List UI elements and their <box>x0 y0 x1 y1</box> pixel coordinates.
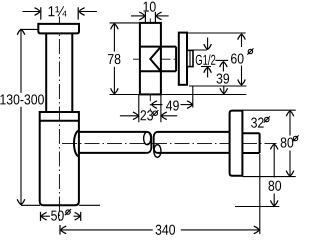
dimension G1/2: down arrow <box>207 38 209 50</box>
extension lines valve body sides for 23 <box>139 95 161 123</box>
dimension 39: down arrow <box>223 86 225 94</box>
valve wall flange 60 <box>179 33 187 85</box>
dimension 23: right arrow <box>161 115 177 117</box>
dimension 23: left arrow <box>120 115 138 117</box>
outlet pipe right segment <box>158 132 230 153</box>
tailpipe tube <box>46 33 72 112</box>
outlet dome inside cup <box>74 131 79 156</box>
dimension 130-300: bottom reference <box>21 204 40 206</box>
text 50 <box>51 210 64 220</box>
bottle cup body <box>40 112 79 205</box>
valve neck <box>140 47 176 72</box>
text G1/2 <box>196 54 216 65</box>
dimension 1 1/4: ticks <box>41 7 78 19</box>
dimension 10: ticks <box>145 12 155 23</box>
valve cone <box>150 47 161 72</box>
dimension 39: up arrow <box>222 62 224 72</box>
dimension 50: left arrow <box>41 215 50 217</box>
centerline: vertical axis of bottle trap <box>58 17 60 222</box>
dia symbol for 23 <box>152 110 158 116</box>
dimension 130-300: upper stem <box>20 29 22 93</box>
extension line nipple end for 49 <box>192 87 194 108</box>
text 49 <box>166 100 179 110</box>
outlet pipe left segment <box>79 132 147 153</box>
text 80 dia <box>281 137 294 147</box>
dimension 130-300: lower stem <box>20 107 22 205</box>
dimension 80 dia: bottom reference <box>243 176 296 178</box>
extension line bottom of valve body <box>110 94 247 96</box>
dimension 10: right arrow <box>156 15 168 17</box>
dimension 50: right arrow <box>74 215 81 217</box>
wall extension line <box>259 154 261 234</box>
pipe break right cap <box>154 132 158 153</box>
dimension 50: ticks <box>41 212 81 221</box>
dimension 1 1/4: left arrow <box>23 11 40 13</box>
nipple thread line <box>189 50 191 66</box>
dimension 340: right arrow <box>181 229 259 231</box>
pipe break lower loop <box>154 145 161 158</box>
dimension 49: right arrow <box>181 104 193 106</box>
text 1 1/4 <box>49 6 67 16</box>
wall stub pipe <box>242 133 259 153</box>
wall rosette flange <box>230 111 243 176</box>
dia symbol for 32 <box>264 116 270 122</box>
extension line top of flange 60 <box>187 32 246 34</box>
G1/2 nipple <box>187 50 193 66</box>
dimension 10: left arrow <box>131 15 145 17</box>
text 10 <box>144 2 156 12</box>
dia symbol for 50 <box>65 209 71 215</box>
extension line top of valve body <box>110 22 140 24</box>
dimension 80 dia: up arrow <box>289 111 291 136</box>
centerline: horizontal axis of outlet pipe <box>62 142 277 144</box>
dimension 49: left arrow <box>152 104 163 106</box>
text 80 height <box>269 181 282 191</box>
pipe break left cap <box>147 132 151 153</box>
dimension 340: left tick <box>59 225 61 235</box>
dimension 80 height: bottom reference <box>235 206 279 208</box>
dimension 80 dia: top reference <box>243 109 296 111</box>
trap inlet flange nut <box>38 24 79 34</box>
dimension 80 dia: down arrow <box>289 151 291 177</box>
dimension 340: left arrow <box>61 229 153 231</box>
dimension 1 1/4: right arrow <box>79 11 97 13</box>
dimension 78: lower stem <box>113 67 115 94</box>
text 78 <box>108 54 120 64</box>
dimension G1/2: top bar <box>189 49 207 51</box>
centerline: vertical axis of angle valve <box>149 19 151 112</box>
text 130-300 <box>0 94 44 104</box>
dimension 78: upper stem <box>113 24 115 52</box>
angle valve body <box>140 23 161 95</box>
dimension 60: up arrow <box>241 34 243 47</box>
dimension 39: top bar <box>215 59 228 61</box>
dimension 80 height: down arrow <box>273 194 275 206</box>
centerline: horizontal axis of angle valve <box>133 58 194 60</box>
dimension 130-300: top reference <box>21 28 38 30</box>
extension line right of bottle bottom <box>79 204 100 206</box>
extension line bottom of flange 60 <box>189 85 246 87</box>
dia symbol for 80 <box>292 135 298 141</box>
text 39 <box>217 73 230 83</box>
text 60 <box>231 53 244 63</box>
text 340 <box>156 225 175 235</box>
text 32 <box>251 118 264 128</box>
text 23 <box>141 110 153 120</box>
dimension 80 height: up arrow <box>273 144 275 177</box>
dimension G1/2: bottom bar <box>201 66 211 68</box>
cup nut line <box>40 120 79 122</box>
dimension G1/2: up arrow <box>207 67 209 77</box>
dimension 60: down arrow <box>241 66 243 85</box>
pipe break upper loop <box>144 132 151 145</box>
dia symbol for 60 <box>247 48 253 54</box>
